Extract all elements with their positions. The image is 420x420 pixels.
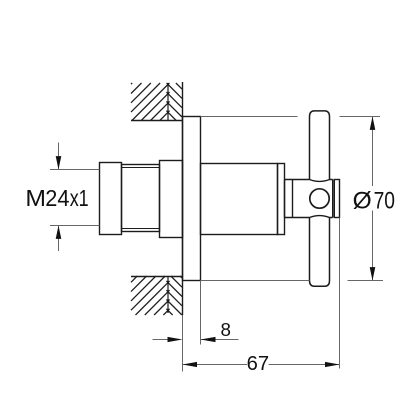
M24 bottom arrow — [58, 226, 60, 251]
hub outline top edge with neck dip — [285, 180, 333, 182]
body end ring — [278, 164, 285, 235]
second collar — [160, 161, 183, 238]
hub outline bottom edge with neck dip — [285, 216, 333, 218]
escutcheon plate — [183, 117, 201, 281]
handle bar upper — [310, 111, 330, 180]
front cap — [334, 180, 339, 218]
wall bottom layer interface line — [167, 277, 169, 314]
M24 top arrow — [58, 143, 60, 169]
svg-text:67: 67 — [247, 353, 269, 375]
M24 bottom extension line — [50, 225, 100, 227]
hub right edge — [332, 180, 334, 218]
left collar — [100, 163, 122, 235]
8 dim left lead — [153, 339, 169, 341]
thread root top — [122, 167, 160, 169]
wall bottom hole edge — [131, 276, 183, 278]
svg-text:M: M — [25, 185, 46, 211]
thread section — [122, 165, 160, 232]
plate right extension down — [200, 281, 202, 345]
wall face extension down — [182, 315, 184, 372]
wall top hatch slash lines — [131, 83, 170, 121]
dia70 top extension — [201, 116, 298, 118]
handle bar lower — [310, 218, 330, 287]
svg-text:70: 70 — [374, 188, 395, 215]
svg-text:8: 8 — [221, 319, 231, 340]
wall bottom hatch slash lines — [131, 276, 170, 315]
hub left edge — [284, 180, 286, 218]
svg-text:24: 24 — [45, 185, 69, 211]
hub screw circle — [310, 189, 329, 208]
dia70 bottom extension — [201, 280, 310, 282]
wall top hatch back lines — [166, 83, 182, 121]
wall bottom hatch back lines — [166, 276, 182, 315]
wall top layer interface line — [167, 83, 169, 121]
8 dim right lead — [201, 339, 239, 341]
svg-text:Ø: Ø — [353, 188, 372, 215]
67 dim line — [183, 364, 248, 366]
cap extension down — [339, 218, 341, 369]
svg-text:x1: x1 — [70, 185, 89, 211]
wall face line — [182, 82, 184, 315]
hub face line — [292, 180, 294, 218]
valve body — [201, 164, 278, 235]
M24 top extension line — [50, 169, 100, 171]
thread root bottom — [122, 228, 160, 230]
wall top hole edge — [131, 120, 183, 122]
dia70 dimension line — [372, 117, 374, 186]
